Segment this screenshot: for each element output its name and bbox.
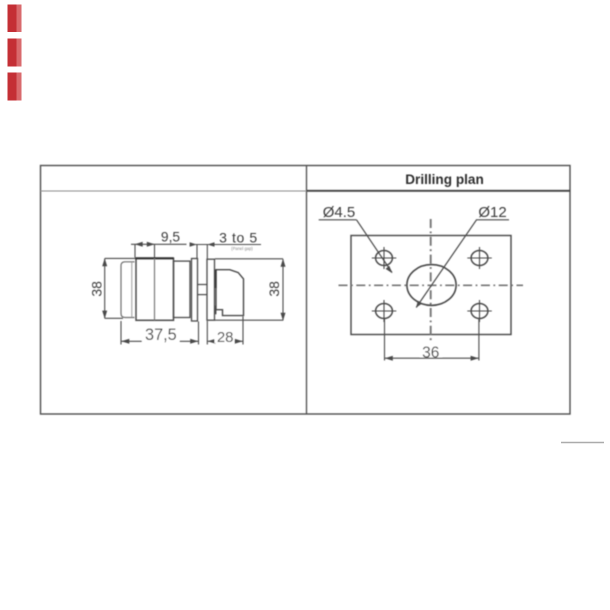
dimension 28 — [207, 317, 243, 345]
dimension 38 right — [215, 259, 286, 321]
svg-text:Ø12: Ø12 — [478, 204, 506, 221]
dimension 3 to 5 line — [190, 242, 261, 258]
mounting plate rectangle — [351, 236, 511, 335]
knob left edge thick — [215, 270, 217, 288]
svg-text:38: 38 — [266, 281, 282, 297]
dimension 36 — [385, 319, 479, 361]
svg-text:Drilling plan: Drilling plan — [405, 172, 484, 187]
leader line Ø4.5 with arrow — [357, 220, 393, 273]
svg-text:37,5: 37,5 — [145, 326, 177, 344]
table outer frame — [41, 166, 571, 415]
dimension 37,5 — [121, 321, 199, 345]
red mark 2 — [8, 39, 22, 67]
mounting flange plate — [192, 259, 198, 322]
hole bottom-right — [467, 300, 492, 322]
hole bottom-left — [372, 300, 397, 322]
svg-text:(Panel gap): (Panel gap) — [231, 246, 253, 251]
body step section — [174, 261, 191, 317]
grey dash lower right — [561, 442, 604, 444]
knob handle profile — [216, 270, 244, 316]
svg-text:9,5: 9,5 — [161, 229, 181, 244]
hole top-left Ø4.5 — [372, 247, 397, 269]
svg-text:Ø4.5: Ø4.5 — [323, 204, 356, 221]
svg-text:36: 36 — [422, 344, 439, 361]
body internal segment line — [154, 258, 156, 320]
dimension 38 left: vertical dim line with outward arrows — [102, 258, 136, 318]
center hole Ø12 — [407, 265, 456, 306]
table header underline left cell — [41, 190, 307, 192]
dimension 9,5 line — [131, 242, 187, 258]
vertical centerline (dash-dot) — [430, 219, 432, 342]
hole top-right — [467, 247, 492, 269]
red mark 3 — [8, 73, 22, 101]
main switch body block — [136, 258, 174, 320]
red mark 1 (top-left banner fragment) — [8, 5, 22, 33]
knob base plate — [207, 259, 215, 320]
horizontal centerline (dash-dot) — [339, 284, 524, 286]
svg-text:38: 38 — [89, 281, 105, 297]
leader line Ø12 with arrow — [416, 220, 477, 308]
svg-text:3 to 5: 3 to 5 — [219, 230, 258, 246]
table column divider — [306, 166, 308, 415]
shaft through panel gap — [198, 285, 208, 295]
rear cap of switch body — [121, 262, 135, 318]
table header underline right cell — [307, 190, 571, 192]
svg-text:28: 28 — [217, 329, 234, 346]
